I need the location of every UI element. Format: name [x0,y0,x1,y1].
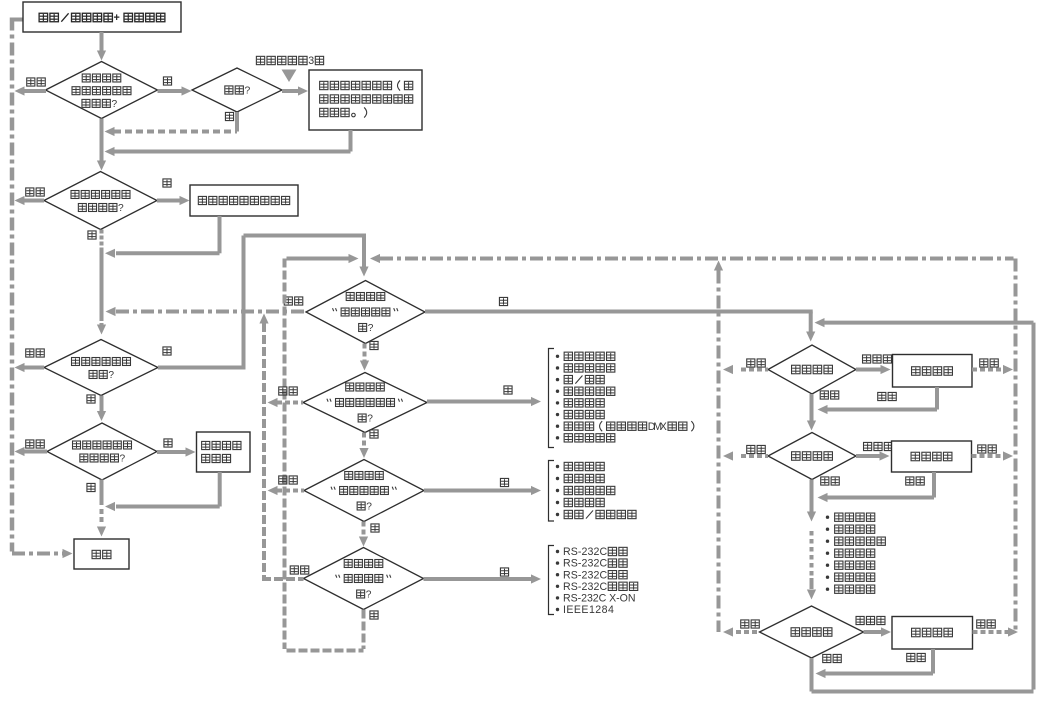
list2 item 功能选择 [556,477,559,480]
label 退出 R1 left [747,359,755,367]
wire right solid return from bottom loop [824,321,1034,325]
arrow R1 to box [856,368,882,372]
svg-text:?: ? [111,99,117,110]
label 否 C4 [370,611,378,619]
decision C3 是否改变打印后菜单项 [304,460,424,522]
param list item 连续纸长度 [826,540,829,543]
decision D1 是否将打印机重设为出厂设定 [46,62,158,119]
list1 item 纸最大长度 [556,390,559,393]
decision D3 是否打印当前菜单设定 [44,172,157,230]
arrow from loopback into C1 feed (left side) [287,257,350,261]
wire left exit bottom to done box [12,552,63,556]
wire R1 box save loop [935,387,939,410]
decision C4 是否改变接口菜单项 [304,548,424,610]
label 退出 D3 [26,188,34,196]
svg-text:?: ? [368,323,374,334]
decision R1 打印速度 [768,345,856,394]
wire center loopback vertical [283,259,287,650]
arrow from right loop into C1 feed (right side, dash-dot) [380,257,1014,261]
decision D2 确定? [192,68,282,112]
arrow D5 to change box [157,450,187,454]
wire C1 exit dash-dot to left column [116,310,306,314]
svg-text:?: ? [120,453,126,464]
bracket list2 [549,461,555,522]
svg-text:?: ? [118,203,124,214]
wire vertical D3 to D4 [100,230,104,251]
wire init box down-return [349,130,353,152]
list3 item RS-232C暂停位 [556,585,559,588]
label 退出 D4 [26,349,34,357]
wire C1-yes right to R1 [425,310,813,314]
param list item 小纸调节 [826,588,829,591]
change box text [202,441,210,449]
label 退出 C4 [290,566,298,574]
label 保存 R3 diamond [823,654,831,662]
feed-key triangle marker [282,70,297,83]
wire C2 to C3 [362,433,366,451]
label 退出 C2 [279,387,287,395]
svg-text:RS-232C: RS-232C [563,581,607,593]
list1 item 设定锁定 [556,401,559,404]
D2 text [225,86,233,94]
arrow R2 box exit right dashed [972,454,1006,458]
label 否 C1 [370,341,378,349]
label 否 C2 [370,430,378,438]
wire R3 box save loop [931,649,935,674]
arrow D4 exit left [23,366,44,370]
arrow C4-yes to list3 [424,577,533,581]
svg-text:+: + [114,12,120,24]
R2 text [792,452,800,460]
arrowhead into done box [63,549,73,558]
C3 text [345,472,353,480]
list3 item RS-232C波特 [556,550,559,553]
label 是 C3 [500,478,508,486]
arrow C2 exit left [277,401,303,405]
svg-text:RS-232C X-ON: RS-232C X-ON [563,593,636,605]
C4 text [344,560,352,568]
label 退出 R3 right [977,620,985,628]
svg-text:IEEE1284: IEEE1284 [563,604,614,616]
wire main vertical D1 to D3 [100,119,104,163]
wire C4-no down and loopback left [362,610,366,650]
init box text [320,81,328,89]
list2 item 切纸器动作 [556,489,559,492]
svg-text:3: 3 [308,55,314,67]
arrow D1 exit left [24,89,46,93]
list1 item 蜂鸣器选择 [556,366,559,369]
wire R1 to R2 [810,394,814,421]
list3 item RS-232C X-ON [556,596,559,599]
arrow R2 to box [856,454,881,458]
print box text [198,196,206,204]
arrow D1 to D2 [158,89,184,93]
bracket list3 [549,546,555,615]
decision C1 是否改变页设定菜单项 [306,281,425,344]
D1 text [82,74,90,82]
list3 item RS-232C长度 [556,573,559,576]
label 是 D1 [163,77,171,85]
param list item 垂直位置 [826,552,829,555]
arrow C3-yes to list2 [424,489,532,493]
svg-text:?: ? [366,589,372,600]
label 保存 R2 diamond [821,477,829,485]
decision D4 是否改变菜单设定 [44,340,158,396]
list3 item IEEE1284 [556,608,559,611]
start box label [39,13,47,21]
wire D2-no down [235,112,239,132]
wire arrow D4-no down to D5 [100,396,104,413]
svg-text:RS-232C: RS-232C [563,546,607,558]
svg-text:RS-232C: RS-232C [563,569,607,581]
arrow R2 exit left [741,454,768,458]
label 改变值 R3 [856,616,864,624]
list2 item 自动配置 [556,465,559,468]
arrow D5 exit left [24,450,47,454]
wire change box down-return [218,472,222,507]
label 保存 R3 box [907,653,915,661]
wire D4-yes right-up-right into C1 [158,366,246,370]
D3 text [71,191,79,199]
param list item 浓度调节 [826,516,829,519]
arrow R3 to box [864,630,883,634]
start box 设定/再印刷键+打开电源 [23,2,181,32]
label 是 D5 [164,439,172,447]
wire center exit collector vertical [262,323,266,578]
label 否 D5 [87,483,95,491]
wire C4 exit left to collector [262,577,304,581]
wire R2 box save loop [932,472,936,498]
label 否 D3 [88,231,96,239]
arrow D2 to init box [282,89,300,93]
wire right top dash-dot return line [1014,259,1018,633]
label 否 D2 [225,112,233,120]
label 退出 C1 [284,297,292,305]
process box 改变参数 R3 [892,617,973,650]
list3 item RS-232C奇偶 [556,561,559,564]
dotted ellipsis line [810,531,814,536]
R1 text [792,365,800,373]
wire left exit top stub to start box [10,18,23,22]
label 保存 R2 box [906,477,914,485]
arrow R3 exit left [736,630,760,634]
wire C1 to C2 [363,344,367,363]
process box 打印改变的内容 [197,432,251,472]
decision C2 是否改变系统设定菜单项 [303,373,427,433]
arrow R1 exit left [741,368,768,372]
label 保存 R1 diamond [820,391,828,399]
list1 item 传感器级别 [556,355,559,358]
label 退出 R2 right [978,445,986,453]
list2 item 纸张位置 [556,501,559,504]
arrow start box to D1 [100,32,104,52]
terminal box 完成 [74,539,129,569]
svg-text:?: ? [108,370,114,381]
list1 item 模拟器选择 [556,436,559,439]
arrow C2-yes to list1 [427,400,532,404]
wire C1 feed vertical [362,236,366,267]
done box text [92,550,100,558]
arrow R3 box exit right dashed [973,630,1010,634]
label 退出 D5 [26,440,34,448]
label 退出 C3 [279,476,287,484]
wire right exit collector vertical [717,271,721,633]
label 按住送纸键3秒 [256,56,264,64]
wire C3 to C4 [362,522,366,540]
C1 text [346,293,354,301]
process box 改变参数 R1 [893,355,973,388]
param list item 纸传感器 [826,576,829,579]
label 是 D4 [163,347,171,355]
process box 打印当前设定的内容 [190,185,298,216]
label 是 C1 [499,297,507,305]
C2 text [346,383,354,391]
svg-text:DMX: DMX [648,421,667,433]
label 是 D3 [163,179,171,187]
param list item 水平切换 [826,564,829,567]
arrow D3 to print box [157,199,181,203]
label 否 D4 [87,395,95,403]
decision D5 是否打印当前菜单设定 second [47,423,157,480]
label 保存 R1 box [878,392,886,400]
arrow D3 exit left [23,199,44,203]
process box 设定内容初始化 [309,70,422,130]
wire R3 bottom to loop [810,658,814,692]
D4 text [72,358,80,366]
param list item 打印方法 [826,528,829,531]
label 退出 R3 left [741,620,749,628]
label 是 C4 [500,568,508,576]
wire D5-no down to done [100,480,104,506]
label 改变值 R2 [864,442,872,450]
svg-text:?: ? [244,86,250,97]
list1 item 键盘锁定 [556,413,559,416]
list1 item 控制码（仅适用于DMX模式） [556,425,559,428]
svg-text:RS-232C: RS-232C [563,558,607,570]
label 退出 R1 right [980,359,988,367]
decision R3 小纸长度 [760,606,864,658]
wire print box down-return [218,216,222,253]
R3 text [791,628,799,636]
process box 改变参数 R2 [892,441,972,472]
svg-text:?: ? [367,413,373,424]
D5 text [73,441,81,449]
bracket list1 [549,349,555,448]
svg-text:?: ? [366,501,372,512]
label 是 C2 [504,386,512,394]
wire D2-no return dashed [114,130,237,134]
decision R2 打印浓度 [768,433,856,480]
arrow C3 exit left [277,489,304,493]
label 否 C3 [371,524,379,532]
wire left exit dash-dot vertical [10,18,15,552]
arrow into R3 [810,578,814,589]
list1 item 米／英寸 [556,378,559,381]
arrow R1 box exit right dashed [972,368,1005,372]
wire R2 down to parameter list [810,480,814,513]
label 退出 R2 left [747,445,755,453]
label 退出 D1 [27,78,35,86]
label 改变值 R1 [863,355,871,363]
list2 item 设定／再印刷键 [556,513,559,516]
